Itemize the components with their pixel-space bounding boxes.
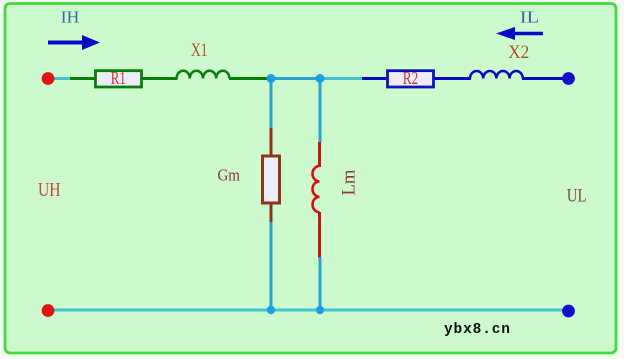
arrow IH current direction (48, 35, 100, 50)
svg-text:IL: IL (520, 8, 540, 27)
svg-text:UL: UL (567, 185, 587, 206)
wire top-left terminal stub (cyan) (50, 77, 70, 80)
wire Lm bottom lead (red) (318, 212, 321, 258)
wire R1 left lead (green) (70, 77, 96, 80)
wire X1 to node A (green) (229, 77, 271, 80)
resistor R1 (96, 68, 142, 88)
wire R2 to X2 (dark blue) (435, 77, 472, 80)
wire Gm top lead (brown) (270, 128, 273, 157)
junction node B' (316, 306, 324, 314)
inductor X1 (177, 71, 230, 79)
node UL- terminal (562, 305, 575, 318)
node UH- terminal (42, 304, 55, 317)
wire Gm branch lower (blue) (270, 222, 273, 310)
wire Lm top lead (red) (318, 142, 321, 167)
node UL+ terminal (562, 72, 575, 85)
junction node A (267, 74, 276, 83)
svg-text:UH: UH (38, 179, 61, 201)
resistor R2 (388, 68, 434, 88)
wire R1 to X1 (green) (143, 77, 178, 80)
wire X2 to right terminal (dark blue) (522, 77, 566, 80)
junction node B (316, 74, 325, 83)
svg-text:ybx8.cn: ybx8.cn (444, 322, 510, 338)
resistor Gm (263, 156, 280, 203)
svg-text:X1: X1 (191, 40, 208, 61)
wire bottom rail (cyan) (50, 309, 566, 312)
svg-text:R1: R1 (111, 68, 126, 88)
svg-text:R2: R2 (403, 68, 419, 88)
svg-text:IH: IH (61, 8, 80, 27)
arrow IL current direction (496, 27, 543, 40)
inductor Lm (313, 166, 320, 212)
junction node A' (267, 306, 275, 314)
wire Lm branch upper (blue) (319, 79, 322, 143)
wire Gm bottom lead (brown) (270, 202, 273, 223)
wire R2 left lead (dark blue) (362, 77, 388, 80)
inductor X2 (470, 71, 523, 79)
svg-text:Lm: Lm (339, 169, 360, 195)
wire node A to node B (blue) (271, 77, 320, 80)
wire node B stub (cyan) (320, 77, 363, 80)
svg-text:Gm: Gm (217, 165, 240, 184)
wire Gm branch upper (blue) (270, 79, 273, 129)
svg-text:X2: X2 (508, 43, 529, 63)
wire Lm branch lower (blue) (319, 257, 322, 310)
node UH+ terminal (42, 72, 55, 85)
